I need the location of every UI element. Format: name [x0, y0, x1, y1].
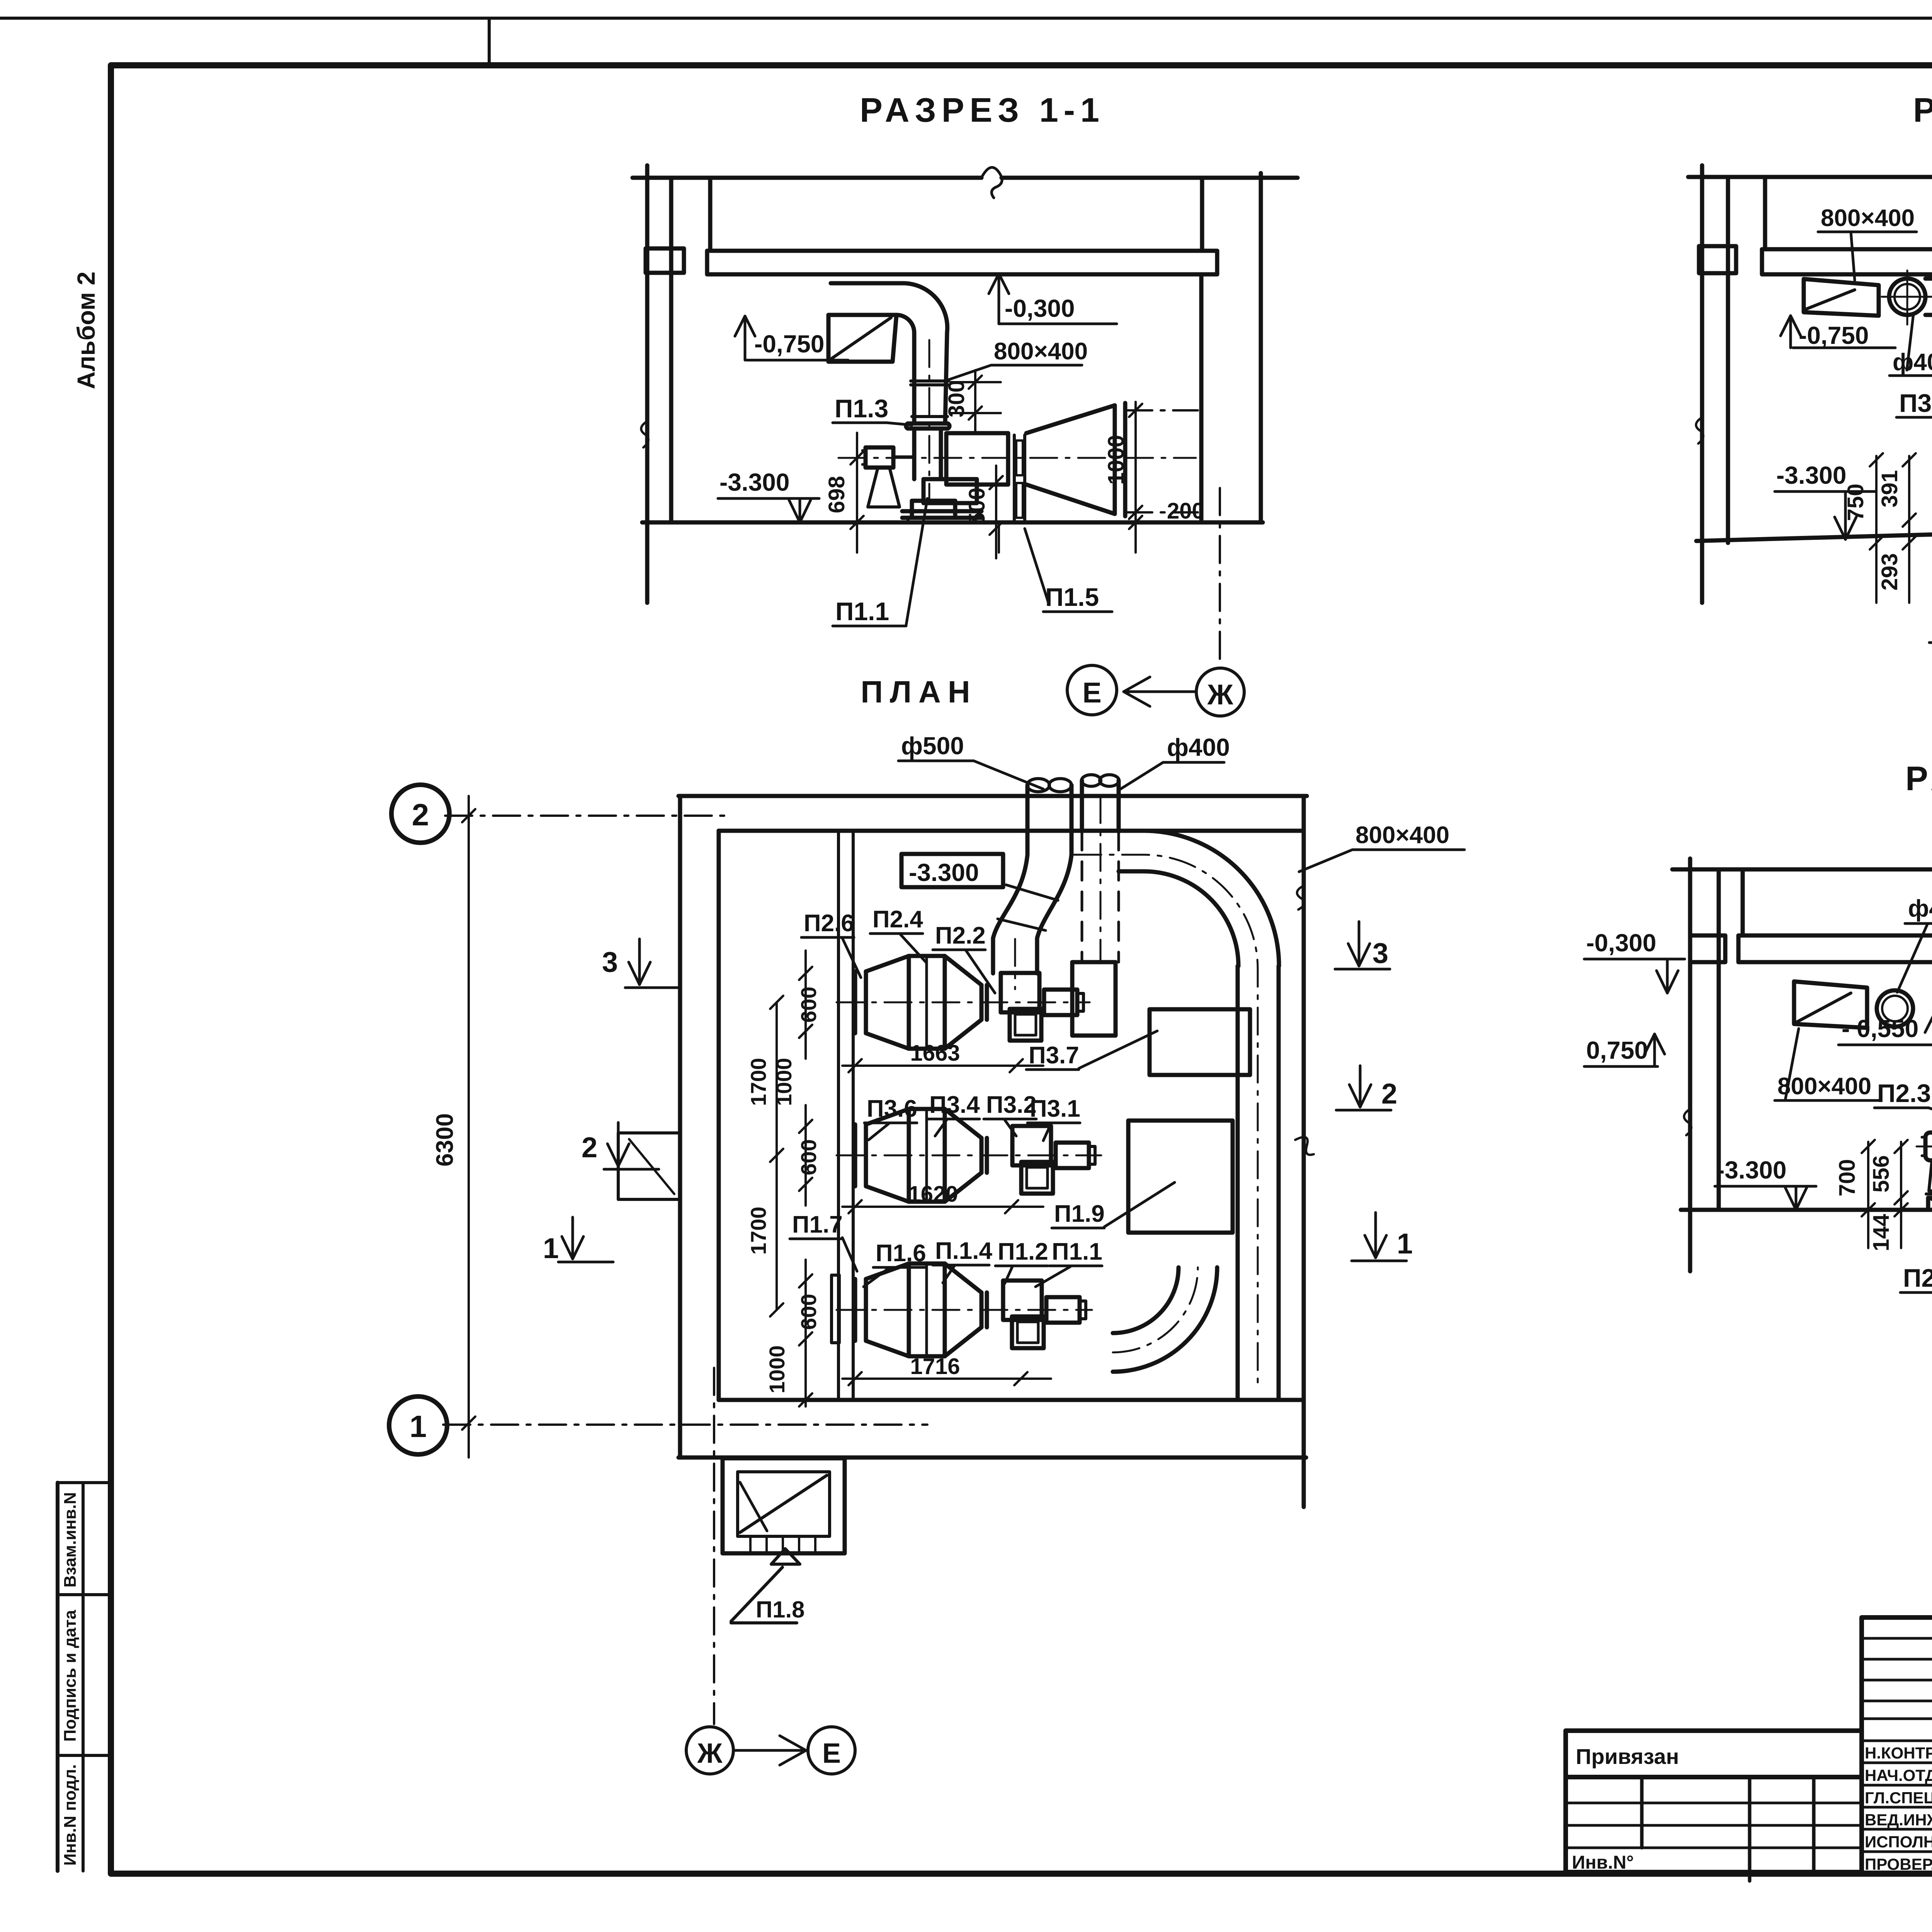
plan left louver niche — [618, 1133, 680, 1199]
plan label П1.9 — [1052, 1182, 1175, 1228]
svg-text:391: 391 — [1877, 470, 1902, 508]
s33 floor line — [1681, 1208, 1932, 1212]
plan label ф400 — [1119, 733, 1230, 790]
plan label П1.7 — [790, 1211, 857, 1271]
plan dim 1716 — [842, 1354, 1051, 1385]
s33 level -3.300 — [1715, 1156, 1816, 1210]
s11 duct joint 2 — [912, 415, 947, 418]
s11 left corbel — [646, 248, 684, 273]
s33 label П2.1 — [1900, 1182, 1932, 1293]
s11 silencer box — [946, 433, 1008, 485]
plan duct top bend inner — [1119, 871, 1238, 966]
svg-text:800×400: 800×400 — [1777, 1073, 1871, 1100]
svg-text:ГЛ.СПЕЦ.: ГЛ.СПЕЦ. — [1865, 1789, 1932, 1807]
signature roles column — [1865, 1744, 1932, 1873]
svg-text:ИСПОЛН.: ИСПОЛН. — [1865, 1833, 1932, 1851]
svg-text:ф500: ф500 — [901, 732, 964, 760]
label Взам.инв.N — [61, 1492, 80, 1588]
s11 level -0.300 — [989, 274, 1117, 324]
plan intake chamber outer — [723, 1458, 845, 1553]
svg-text:Взам.инв.N: Взам.инв.N — [61, 1492, 80, 1588]
privyazan table rows — [1566, 1803, 1862, 1848]
plan cut mark 3 left — [602, 939, 680, 988]
svg-text:П3.2: П3.2 — [986, 1092, 1037, 1118]
plan dim 1700 a — [746, 996, 783, 1316]
s33 dim 144 — [1869, 1203, 1908, 1251]
s11 label П1.5 — [1025, 529, 1112, 612]
s11 duct center dashline — [929, 340, 930, 498]
s22 beam post left — [1763, 177, 1767, 249]
svg-text:П2.1: П2.1 — [1903, 1264, 1932, 1292]
svg-text:1620: 1620 — [908, 1182, 958, 1207]
svg-text:698: 698 — [824, 476, 849, 514]
s33 dim 556 — [1869, 1140, 1908, 1248]
svg-text:556: 556 — [1869, 1155, 1894, 1193]
s11 label 800x400 — [946, 338, 1088, 381]
s33 level -0.550 — [1838, 1012, 1932, 1045]
s33 round duct circle ф400 — [1877, 990, 1913, 1027]
plan label П2.2 — [933, 922, 995, 993]
plan П1.7 flange plate — [832, 1275, 839, 1343]
svg-text:Инв.N подл.: Инв.N подл. — [61, 1764, 80, 1866]
signature table narrow rows — [1862, 1638, 1932, 1719]
s11 horizontal duct top — [831, 281, 904, 286]
s22 left wall inner — [1726, 177, 1730, 543]
s11 beam post right — [1200, 178, 1204, 251]
svg-text:6300: 6300 — [432, 1113, 458, 1167]
svg-text:П3.6: П3.6 — [867, 1095, 917, 1122]
svg-text:800×400: 800×400 — [1355, 822, 1449, 849]
s33 label ф400 — [1897, 895, 1932, 992]
plan grid mark Ж top — [1196, 668, 1244, 716]
s11 below-floor dim extensions — [857, 522, 999, 553]
svg-text:1000: 1000 — [772, 1058, 796, 1106]
s22 dim 750 — [1843, 453, 1883, 603]
s11 fan scroll box — [912, 501, 955, 518]
svg-text:0,750: 0,750 — [1586, 1036, 1648, 1064]
svg-text:П3.1: П3.1 — [1030, 1095, 1080, 1122]
svg-text:Альбом 2: Альбом 2 — [72, 272, 100, 389]
svg-text:Н.КОНТР.: Н.КОНТР. — [1865, 1744, 1932, 1762]
s33 wall break mark — [1684, 1109, 1691, 1135]
s33 dim 700 — [1835, 1140, 1875, 1248]
s11 dim 200 — [1129, 498, 1204, 529]
s33 ceiling beam — [1738, 935, 1932, 966]
s22 left corbel — [1699, 246, 1736, 273]
svg-text:750: 750 — [1843, 484, 1868, 521]
s33 intake hood — [1794, 981, 1867, 1028]
s33 motor — [1922, 1133, 1932, 1160]
plan intake chamber inner — [738, 1472, 830, 1536]
s11 support stand — [1014, 435, 1025, 522]
plan dim 1620 — [842, 1182, 1043, 1213]
section 2-2 title — [1913, 91, 1932, 129]
plan level box -3.300 — [901, 854, 1003, 887]
s11 intake hood — [828, 315, 896, 362]
s11 motor — [862, 447, 914, 468]
svg-text:-0,750: -0,750 — [754, 330, 824, 358]
svg-text:П1.7: П1.7 — [792, 1211, 843, 1238]
svg-text:Инв.N°: Инв.N° — [1572, 1852, 1634, 1873]
plan label П3.6 — [864, 1095, 917, 1140]
plan fan unit П2 row — [837, 956, 1090, 1049]
plan axis circle 1 — [389, 1396, 447, 1454]
s33 axis dash-dot — [1917, 1146, 1932, 1148]
plan right wall — [1302, 796, 1306, 1507]
svg-text:П1.5: П1.5 — [1045, 583, 1099, 611]
s33 motor pedestal — [1929, 1160, 1932, 1191]
svg-text:П1.2: П1.2 — [998, 1238, 1048, 1265]
left margin column table — [58, 1483, 111, 1871]
plan dim 600 row1 — [796, 1260, 821, 1406]
sheet top border line — [0, 17, 1932, 20]
s33 left corbel — [1690, 935, 1725, 962]
s11 ceiling slab line — [633, 167, 1298, 198]
svg-text:НАЧ.ОТД.: НАЧ.ОТД. — [1865, 1766, 1932, 1784]
plan duct centerline — [1074, 855, 1258, 1385]
plan label П2.6 — [801, 910, 861, 978]
plan riser ф400 centerline — [1100, 796, 1102, 961]
plan label П1.1 — [1036, 1238, 1102, 1287]
plan title — [861, 675, 977, 709]
svg-text:-3.300: -3.300 — [1716, 1156, 1786, 1184]
plan duct vertical run — [1238, 966, 1279, 1400]
svg-text:П3.3: П3.3 — [1899, 389, 1932, 417]
s33 level -0.750 left — [1584, 1034, 1665, 1066]
svg-text:600: 600 — [796, 986, 821, 1022]
s11 fan casing — [923, 479, 977, 503]
s22 ceiling slab line — [1688, 167, 1932, 197]
plan grid mark Ж bottom — [686, 1727, 733, 1774]
s11 duct elbow outer arc — [904, 283, 947, 332]
svg-text:-0,300: -0,300 — [1586, 929, 1656, 957]
svg-text:ф400: ф400 — [1908, 895, 1932, 922]
svg-text:Ж: Ж — [697, 1738, 723, 1769]
s22 label 800x400 — [1818, 205, 1917, 280]
svg-text:200: 200 — [1167, 498, 1204, 524]
s11 level -3.300 — [718, 468, 819, 522]
svg-text:1: 1 — [410, 1409, 427, 1444]
s22 label ф400 — [1889, 314, 1932, 376]
label Инв.N подл. — [61, 1764, 80, 1866]
plan label П3.2 — [984, 1092, 1037, 1136]
svg-text:1700: 1700 — [746, 1058, 770, 1106]
plan label П2.4 — [870, 906, 927, 963]
s33 left wall inner — [1717, 869, 1721, 1210]
s11 duct elbow inner arc — [896, 315, 914, 333]
privyazan table outline — [1566, 1731, 1862, 1872]
plan top wall — [679, 796, 1307, 831]
s11 vertical duct right edge — [945, 332, 947, 423]
s11 beam post left — [708, 178, 713, 251]
s11 right wall outer — [1259, 173, 1263, 522]
svg-text:2: 2 — [1381, 1078, 1397, 1110]
section 3-3 title — [1905, 759, 1932, 798]
svg-text:ф400: ф400 — [1893, 349, 1932, 376]
s11 duct flange pair — [906, 423, 949, 429]
plan duct top bend outer — [1144, 831, 1279, 966]
svg-text:ПЛАН: ПЛАН — [861, 675, 977, 709]
plan label П3.1 — [1027, 1095, 1080, 1141]
s11 dim 500 — [964, 466, 1003, 558]
svg-text:2: 2 — [412, 798, 429, 832]
plan plenum wall — [838, 831, 853, 1400]
plan grid mark E bottom — [808, 1727, 855, 1774]
svg-text:-0,750: -0,750 — [1799, 321, 1869, 349]
s11 left wall outer — [645, 165, 650, 603]
svg-text:1: 1 — [1397, 1228, 1413, 1260]
plan intake grille ticks — [750, 1536, 815, 1552]
s11 left wall inner — [669, 178, 673, 522]
svg-text:700: 700 — [1835, 1159, 1860, 1197]
s11 ceiling beam — [707, 251, 1217, 274]
plan intake louver lines — [740, 1475, 827, 1532]
s11 motor pedestal — [868, 468, 900, 507]
plan fan unit П3 row — [837, 1109, 1101, 1202]
plan axis 1 line — [443, 1423, 927, 1426]
s11 axis Ж dash line — [1219, 488, 1221, 667]
svg-text:П2.6: П2.6 — [804, 910, 854, 937]
plan riser ф500 pipe — [1027, 779, 1071, 855]
svg-text:- 0,550: - 0,550 — [1842, 1015, 1918, 1043]
s22 level -0.750 — [1781, 316, 1895, 349]
svg-text:500: 500 — [964, 488, 990, 525]
svg-text:800×400: 800×400 — [994, 338, 1088, 365]
s33 label 800x400 — [1775, 1029, 1879, 1100]
s11 axis dash-dot — [838, 457, 1196, 459]
svg-text:П1.1: П1.1 — [835, 597, 889, 626]
svg-text:РАЗРЕЗ 1-1: РАЗРЕЗ 1-1 — [860, 91, 1105, 129]
s33 label П2.3 — [1874, 1079, 1932, 1120]
plan label П1.6 — [864, 1240, 926, 1287]
plan label П1.2 — [995, 1238, 1048, 1284]
svg-text:П1.3: П1.3 — [835, 394, 888, 423]
plan dim 1700 b — [746, 1207, 770, 1255]
s11 floor line — [642, 520, 1263, 525]
plan flag arrow П1.8 — [731, 1549, 800, 1621]
s11 label П1.1 — [833, 498, 927, 626]
s11 dim 300 — [944, 370, 1001, 431]
signature table text rows — [1862, 1741, 1932, 1852]
svg-text:Е: Е — [822, 1738, 841, 1769]
s11 fan base plate — [902, 511, 981, 522]
plan axis 2 line — [445, 815, 726, 817]
svg-text:1: 1 — [543, 1232, 559, 1264]
section 1-1 title — [860, 91, 1105, 129]
s22 horiz duct — [1925, 279, 1932, 315]
svg-text:П1.9: П1.9 — [1054, 1201, 1105, 1227]
svg-text:293: 293 — [1877, 553, 1902, 591]
plan dim 1000 row1 — [765, 1345, 812, 1406]
plan label П3.4 — [927, 1092, 980, 1136]
svg-text:3: 3 — [602, 946, 618, 978]
svg-text:300: 300 — [944, 380, 969, 418]
text Инв.N дег — [1572, 1852, 1634, 1873]
plan label ф500 — [898, 732, 1043, 789]
s22 springs pre — [0, 0, 0, 0]
plan bottom wall — [679, 1400, 1306, 1458]
s11 dim 1000 — [1104, 402, 1142, 553]
plan dim 600 row3 — [796, 1105, 821, 1206]
svg-text:144: 144 — [1869, 1214, 1894, 1252]
svg-text:800×400: 800×400 — [1821, 205, 1915, 231]
label Подпись и дата — [61, 1610, 80, 1742]
s22 wall break mark — [1696, 417, 1703, 444]
plan cut mark 3 right — [1335, 922, 1390, 969]
s22 floor line — [1696, 524, 1932, 541]
s11 diffuser end grid — [1115, 403, 1125, 516]
s11 vertical duct left edge — [912, 333, 917, 423]
plan label 800x400 — [1299, 822, 1464, 872]
svg-text:ф400: ф400 — [1167, 733, 1230, 761]
s11 label П1.3 — [833, 394, 912, 425]
svg-text:П2.3: П2.3 — [1877, 1079, 1931, 1107]
plan label П1.4 — [933, 1238, 992, 1283]
s11 duct joint coupling — [911, 381, 949, 385]
plan fan unit П1 row — [837, 1264, 1092, 1356]
plan riser ф400 hidden run — [1082, 832, 1119, 962]
s22 level -3.300 — [1775, 461, 1876, 539]
svg-text:1716: 1716 — [910, 1354, 960, 1379]
svg-text:П1.6: П1.6 — [876, 1240, 926, 1267]
plan grid mark E top — [1067, 665, 1117, 715]
svg-text:П1.8: П1.8 — [756, 1597, 805, 1622]
svg-text:П2.2: П2.2 — [935, 922, 986, 949]
s11 level -0.750 — [735, 316, 848, 360]
plan dim 600 row2 — [796, 951, 821, 1059]
s11 diffuser cone — [1026, 405, 1115, 514]
plan flag П1.8 — [731, 1597, 805, 1623]
svg-text:РАЗРЕЗ 3-3: РАЗРЕЗ 3-3 — [1905, 759, 1932, 798]
svg-text:1700: 1700 — [746, 1207, 770, 1255]
s33 level -0.300 left — [1584, 929, 1685, 993]
svg-text:Е: Е — [1082, 677, 1101, 709]
plan riser bend centerline — [1014, 939, 1016, 989]
plan duct bottom bend — [1113, 1267, 1217, 1372]
s22 label П3.1 — [1929, 506, 1932, 643]
s33 left wall outer — [1688, 859, 1692, 1271]
text Привязан — [1576, 1744, 1679, 1769]
plan view arrow top — [1124, 677, 1196, 706]
s22 dim 293 — [1877, 536, 1916, 590]
plan cut mark 2 left — [582, 1122, 659, 1169]
svg-text:2: 2 — [582, 1131, 597, 1163]
s11 diffuser end dashes — [1125, 410, 1198, 512]
plan dim 1663 — [842, 1041, 1043, 1072]
svg-text:ПРОВЕР.: ПРОВЕР. — [1865, 1855, 1932, 1873]
s33 foundation block — [1928, 1198, 1932, 1210]
svg-text:-3.300: -3.300 — [1776, 461, 1846, 489]
plan dim 6300 — [432, 796, 475, 1458]
svg-text:Привязан: Привязан — [1576, 1744, 1679, 1769]
svg-text:ВЕД.ИНЖ.: ВЕД.ИНЖ. — [1865, 1811, 1932, 1829]
svg-text:600: 600 — [796, 1139, 821, 1175]
plan axis circle 2 — [391, 785, 449, 843]
plan riser ф400 pipe — [1082, 775, 1119, 832]
svg-text:-0,300: -0,300 — [1005, 294, 1075, 322]
privyazan table columns — [1642, 1777, 1814, 1881]
svg-text:Подпись и дата: Подпись и дата — [61, 1610, 80, 1742]
plan riser box П3 — [1072, 962, 1116, 1036]
svg-text:П2.4: П2.4 — [872, 906, 923, 933]
svg-text:1663: 1663 — [910, 1041, 960, 1066]
svg-text:1000: 1000 — [765, 1345, 789, 1394]
plan duct bottom bend centerline — [1113, 1267, 1198, 1352]
s22 dim 391 — [1877, 453, 1916, 603]
s22 intake hood — [1804, 279, 1879, 316]
s22 label П3.3 — [1896, 389, 1932, 427]
plan right wall break — [1295, 886, 1314, 1155]
svg-text:П1.1: П1.1 — [1052, 1238, 1102, 1265]
s33 ceiling slab line — [1672, 859, 1932, 889]
top border tick — [488, 18, 491, 65]
svg-text:П.1.4: П.1.4 — [935, 1238, 992, 1264]
s22 round duct circle ф400 — [1882, 270, 1932, 325]
plan dim 1000 row2 — [772, 1025, 812, 1106]
s11 wall break mark — [641, 421, 648, 447]
plan left wall — [680, 796, 719, 1458]
svg-text:П3.4: П3.4 — [929, 1092, 980, 1118]
plan label П3.7 — [1026, 1031, 1157, 1070]
signature table outline — [1862, 1617, 1932, 1874]
svg-text:Ж: Ж — [1207, 679, 1234, 711]
svg-text:3: 3 — [1372, 937, 1388, 969]
album label Альбом 2 — [72, 272, 100, 389]
s11 right wall inner — [1199, 277, 1204, 522]
plan connector box П3.7 — [1150, 1009, 1250, 1075]
s33 base and springs — [1926, 1194, 1932, 1200]
plan cut mark 1 right — [1352, 1213, 1413, 1261]
svg-text:-3.300: -3.300 — [909, 859, 979, 886]
s11 duct below flange — [914, 429, 941, 479]
svg-text:-3.300: -3.300 — [719, 468, 789, 496]
s11 dim 698 — [824, 433, 864, 553]
s22 left wall outer — [1700, 165, 1704, 603]
plan riser offset bend — [993, 855, 1071, 973]
plan connector box П1.9 — [1128, 1121, 1233, 1233]
plan cut mark 1 left — [543, 1217, 613, 1264]
plan cut mark 2 right — [1336, 1066, 1397, 1110]
svg-text:РАЗРЕЗ 2-2: РАЗРЕЗ 2-2 — [1913, 91, 1932, 129]
svg-text:600: 600 — [796, 1294, 821, 1330]
plan view arrow bottom — [734, 1736, 806, 1765]
s22 ceiling beam — [1762, 249, 1932, 280]
svg-text:1000: 1000 — [1104, 435, 1129, 485]
s33 beam post left — [1741, 869, 1745, 935]
plan chamber axis line — [713, 1368, 715, 1724]
